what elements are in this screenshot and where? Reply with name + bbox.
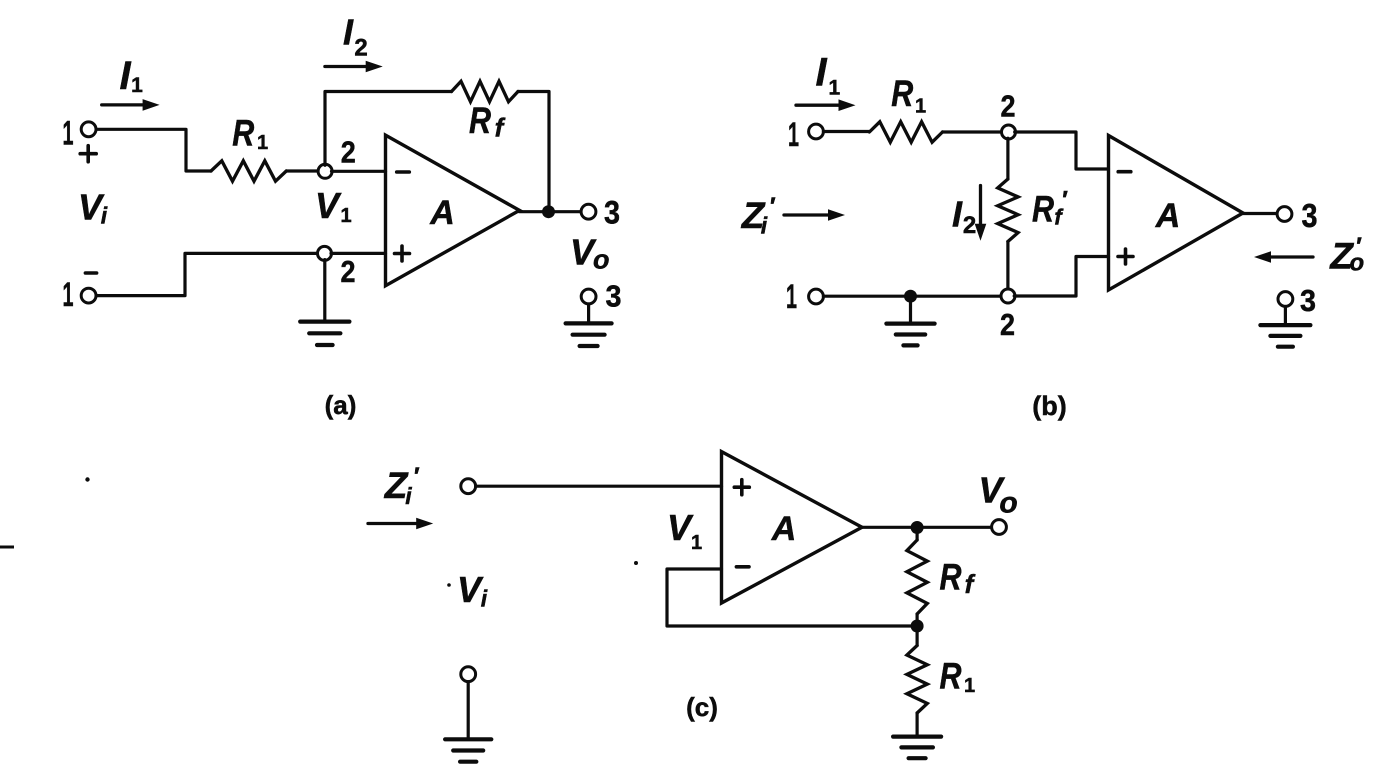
- label V1 (a): [315, 185, 352, 227]
- wire op-amp output (c): [862, 526, 992, 529]
- ground (c right): [893, 737, 941, 759]
- label (a): [325, 390, 357, 420]
- svg-text:I: I: [815, 51, 827, 95]
- terminal 1 top-left (a): [81, 122, 96, 137]
- svg-text:R: R: [940, 557, 962, 598]
- resistor R1 (b): [869, 122, 942, 142]
- svg-text:V: V: [667, 507, 694, 548]
- resistor R1 (c): [907, 646, 927, 714]
- svg-text:R: R: [469, 100, 491, 141]
- svg-text:I: I: [343, 12, 354, 53]
- wire feedback from inverting input (c): [667, 569, 911, 626]
- plus polarity mark (a input): [80, 146, 96, 162]
- label Zo (b): [1329, 233, 1364, 277]
- label Vo (a): [570, 232, 609, 275]
- resistor Rf-prime (b): [998, 179, 1018, 242]
- label 1 (b bottom-left terminal): [786, 278, 797, 316]
- svg-text:1: 1: [691, 532, 702, 554]
- node 2 inverting input (a): [318, 164, 332, 178]
- label R1 (c): [940, 655, 976, 697]
- resistor Rf (a): [452, 81, 519, 101]
- svg-text:1: 1: [340, 205, 351, 227]
- label V1 (c): [667, 507, 702, 554]
- label A (c): [771, 510, 797, 548]
- label A (a): [429, 194, 455, 232]
- noninverting input plus sign (b): [1118, 249, 1133, 264]
- label 1 (a bottom-left terminal): [63, 276, 74, 314]
- noninverting input plus sign (c): [734, 480, 749, 495]
- minus polarity mark (a input): [85, 271, 96, 275]
- node 2 noninverting input (a): [318, 246, 332, 260]
- svg-text:3: 3: [1302, 197, 1318, 234]
- current arrow I2 (a): [325, 61, 383, 73]
- label 3 (a ground terminal): [606, 279, 622, 314]
- svg-text:′: ′: [1061, 187, 1068, 214]
- inverting input minus sign (a): [397, 170, 410, 174]
- wire terminal-3 to ground (b): [1284, 307, 1287, 326]
- terminal output Vo (c): [992, 520, 1007, 535]
- label I1 (b): [815, 51, 840, 100]
- label Rf-prime (b): [1032, 187, 1068, 230]
- label (c): [686, 692, 718, 722]
- label (b): [1032, 391, 1066, 421]
- current arrow I1 (a): [102, 99, 160, 111]
- svg-text:f: f: [965, 569, 976, 599]
- svg-text:i: i: [405, 483, 412, 509]
- label R1 (a): [232, 112, 268, 154]
- label Rf (c): [940, 557, 976, 599]
- op-amp A (b): [1109, 136, 1244, 291]
- svg-text:2: 2: [1000, 307, 1015, 342]
- wire junction to ground (b): [909, 296, 912, 323]
- svg-text:1: 1: [63, 114, 74, 152]
- svg-text:i: i: [481, 586, 488, 612]
- label Zi (b): [741, 193, 776, 239]
- label 2 (b top node): [1001, 89, 1016, 124]
- svg-text:1: 1: [257, 132, 268, 154]
- ground (b left): [886, 324, 934, 346]
- svg-text:2: 2: [341, 134, 356, 169]
- svg-text:i: i: [101, 203, 108, 229]
- impedance arrow Zi (c): [368, 518, 433, 530]
- svg-text:1: 1: [828, 76, 840, 99]
- svg-text:R: R: [891, 73, 913, 114]
- svg-text:1: 1: [786, 278, 797, 316]
- label 1 (b top-left terminal): [788, 116, 799, 154]
- inverting input minus sign (c): [736, 565, 749, 569]
- label 2 (a inverting node): [341, 134, 356, 169]
- wire Rf-prime lower lead (b): [1006, 242, 1009, 290]
- impedance arrow Zi (b): [784, 209, 845, 221]
- label 3 (b ground terminal): [1300, 283, 1316, 318]
- svg-text:I: I: [952, 194, 963, 235]
- svg-text:A: A: [429, 194, 455, 232]
- svg-text:(b): (b): [1032, 391, 1066, 421]
- ground (b right): [1260, 325, 1310, 347]
- label 2 (b bottom node): [1000, 307, 1015, 342]
- wire Rf lower lead (c): [915, 614, 918, 626]
- svg-text:R: R: [1032, 189, 1054, 230]
- wire Rf upper lead (c): [915, 528, 918, 541]
- wire R1 to node 2 (a): [286, 169, 319, 172]
- node 2 bottom (b): [1001, 289, 1015, 303]
- label 2 (a noninverting node): [341, 254, 356, 289]
- svg-text:I: I: [119, 54, 131, 98]
- svg-text:f: f: [495, 113, 506, 143]
- svg-text:′: ′: [769, 193, 776, 220]
- label Vi (a): [78, 187, 108, 229]
- wire R1 to ground (c): [915, 713, 918, 737]
- label Zi (c): [384, 463, 420, 509]
- wire feedback riser from node 2 (a): [325, 92, 452, 166]
- op-amp A (c): [722, 452, 863, 603]
- wire Rf to output junction (a): [518, 92, 549, 206]
- wire node-2 to Rf-prime (b): [1006, 138, 1009, 179]
- wire terminal-1 to node 2 (a noninverting): [96, 253, 318, 295]
- resistor Rf (c): [907, 540, 927, 614]
- wire R1 upper lead (c): [915, 626, 918, 646]
- svg-text:2: 2: [1001, 89, 1016, 124]
- current arrow I2 (b): [975, 186, 987, 241]
- svg-text:(c): (c): [686, 692, 718, 722]
- wire node-2 to ground (a): [323, 260, 326, 322]
- label Vo (c): [978, 470, 1017, 520]
- junction dot output (c): [911, 521, 924, 534]
- terminal 1 top-left (b): [809, 124, 824, 139]
- svg-text:(a): (a): [325, 390, 357, 420]
- svg-text:1: 1: [915, 96, 926, 118]
- svg-text:3: 3: [606, 279, 622, 314]
- ground (a left): [300, 322, 349, 345]
- wire terminal-3 to ground (a): [587, 304, 590, 323]
- junction dot output (a): [542, 205, 555, 218]
- label 1 (a top-left terminal): [63, 114, 74, 152]
- terminal 3 ground reference (a): [581, 289, 596, 304]
- node 2 top (b): [1002, 125, 1016, 139]
- svg-text:A: A: [771, 510, 797, 548]
- label A (b): [1155, 197, 1181, 235]
- terminal 1 bottom-left (a): [81, 288, 96, 303]
- svg-text:V: V: [315, 185, 342, 226]
- wire node-2 to op-amp inverting input (b): [1015, 132, 1109, 169]
- wire terminal-1 to R1 (a): [96, 129, 211, 171]
- svg-text:2: 2: [963, 212, 976, 239]
- svg-text:R: R: [232, 112, 254, 153]
- ground (c left): [445, 739, 491, 761]
- ground (a right): [566, 323, 612, 346]
- label 3 (a output): [604, 195, 620, 231]
- wire terminal to ground (c): [467, 682, 470, 740]
- resistor R1 (a): [211, 161, 286, 181]
- svg-text:1: 1: [964, 675, 975, 697]
- noninverting input plus sign (a): [395, 246, 410, 261]
- label I2 (a): [343, 12, 368, 62]
- junction dot feedback (c): [911, 620, 924, 633]
- svg-text:A: A: [1155, 197, 1181, 235]
- label Vi (c): [457, 569, 488, 612]
- label I2 (b): [952, 194, 976, 240]
- svg-text:R: R: [940, 655, 962, 696]
- svg-text:i: i: [761, 213, 768, 239]
- terminal ground reference (c): [461, 667, 476, 682]
- terminal 3 output (a): [581, 204, 596, 219]
- svg-text:2: 2: [354, 35, 367, 62]
- terminal 1 bottom-left (b): [809, 289, 824, 304]
- inverting input minus sign (b): [1118, 170, 1131, 174]
- svg-text:3: 3: [1300, 283, 1316, 318]
- wire terminal-1 to R1 (b): [823, 130, 869, 133]
- wire terminal-1 to node 2 bottom (b): [823, 295, 1001, 298]
- terminal input (c): [461, 479, 476, 494]
- wire node-2 to op-amp noninverting input (b): [1014, 257, 1108, 297]
- wire node-2 to op-amp inverting input (a): [332, 170, 386, 173]
- op-amp A (a): [386, 135, 520, 286]
- wire op-amp output (a): [520, 210, 582, 213]
- svg-text:′: ′: [413, 463, 420, 490]
- svg-text:3: 3: [604, 195, 620, 231]
- wire op-amp output (b): [1243, 212, 1277, 215]
- wire input to op-amp noninverting input (c): [476, 485, 722, 488]
- wire node-2 to op-amp noninverting input (a): [331, 252, 386, 255]
- current arrow I1 (b): [796, 99, 856, 111]
- impedance arrow Zo (b): [1254, 251, 1313, 263]
- label I1 (a): [119, 54, 143, 98]
- terminal 3 ground reference (b): [1278, 292, 1293, 307]
- svg-text:1: 1: [131, 74, 143, 97]
- label Rf (a): [469, 100, 506, 143]
- svg-text:1: 1: [788, 116, 799, 154]
- terminal 3 output (b): [1277, 207, 1292, 222]
- label 3 (b output): [1302, 197, 1318, 234]
- wire R1 to node 2 (b): [943, 130, 1003, 133]
- svg-text:2: 2: [341, 254, 356, 289]
- svg-text:o: o: [999, 487, 1017, 520]
- svg-text:1: 1: [63, 276, 74, 314]
- junction dot ground tap (b): [904, 290, 917, 303]
- label R1 (b): [891, 73, 926, 118]
- svg-text:o: o: [593, 244, 610, 274]
